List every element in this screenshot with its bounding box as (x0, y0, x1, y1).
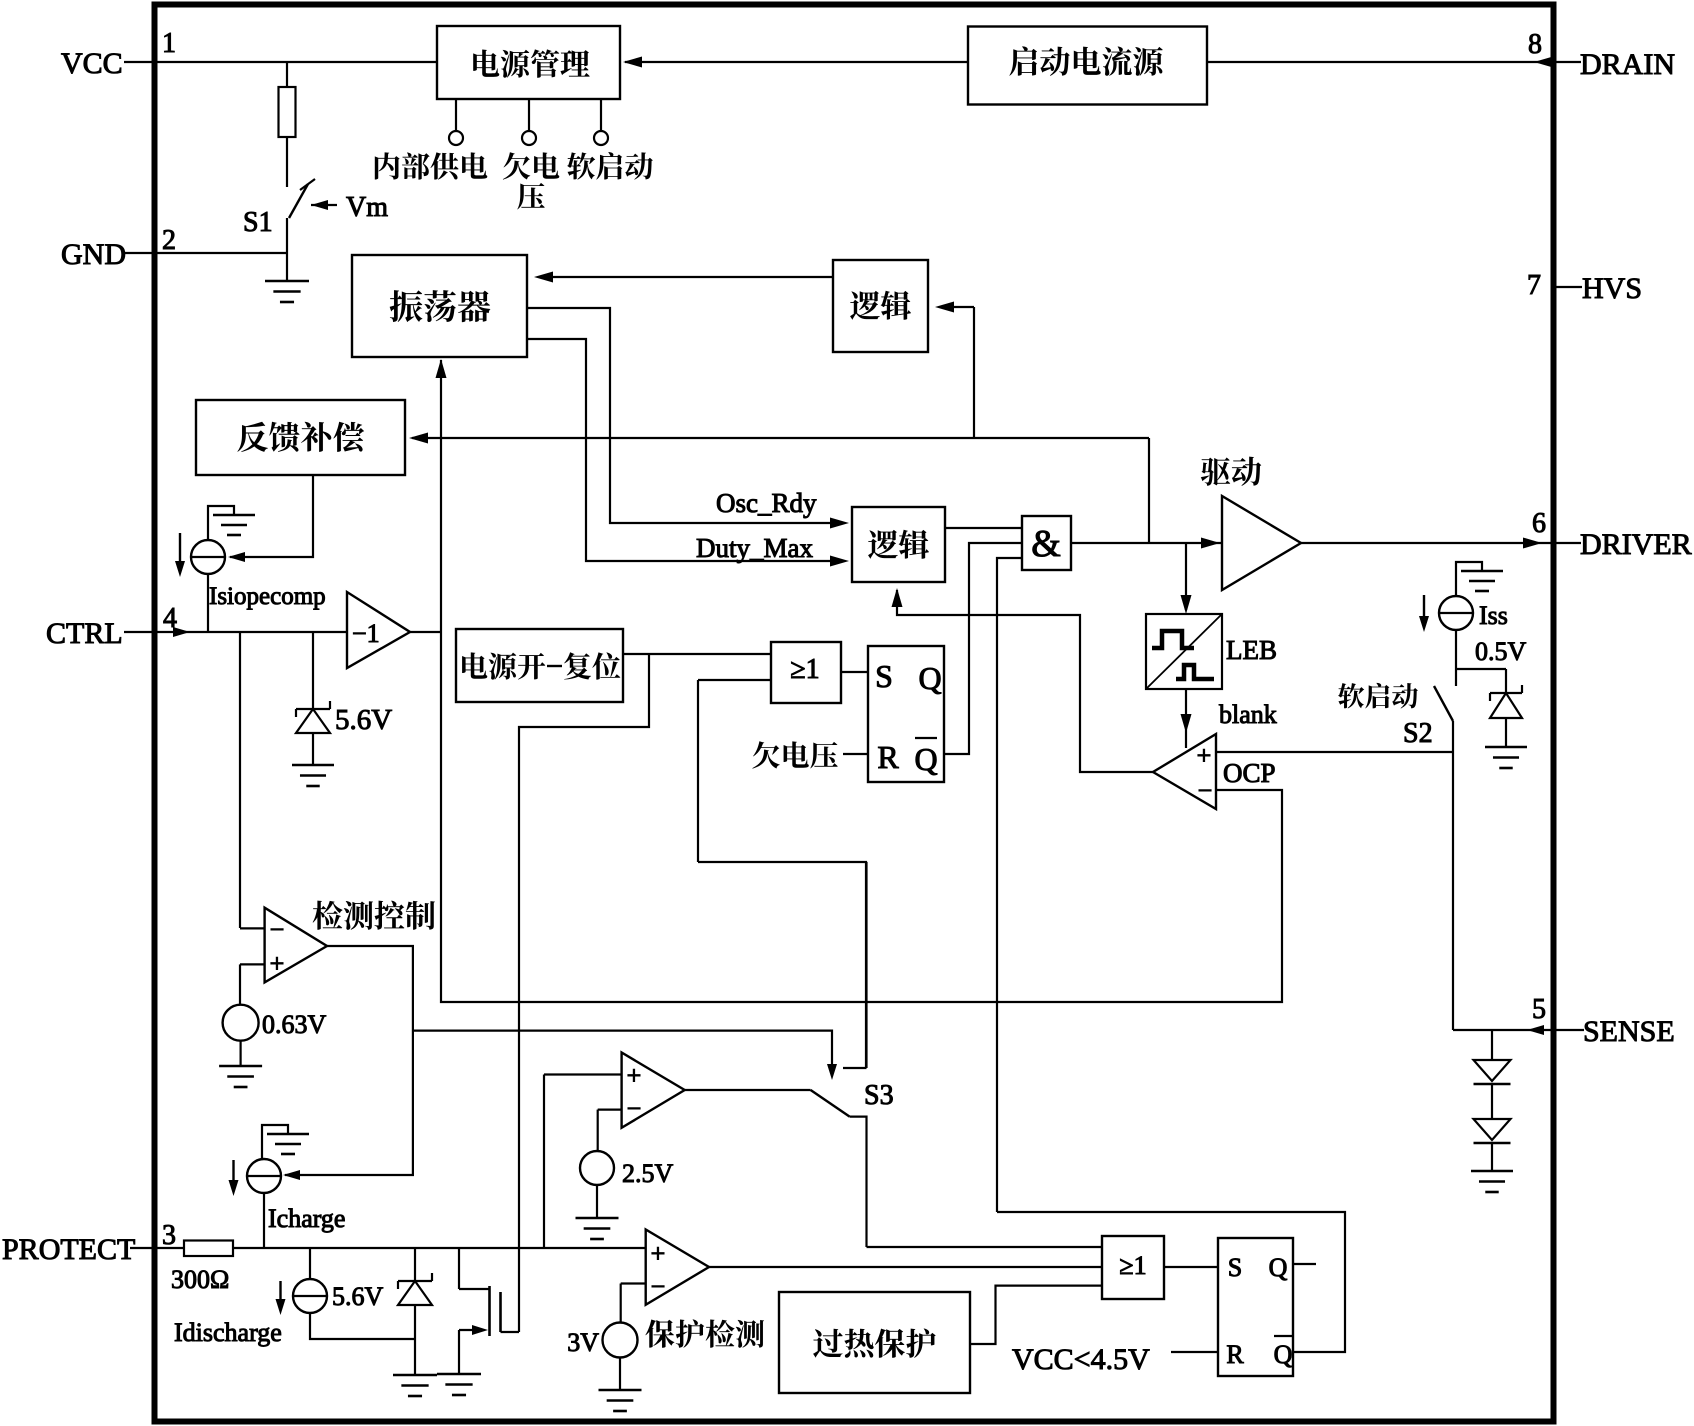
svg-text:DRAIN: DRAIN (1580, 48, 1675, 81)
svg-text:+: + (627, 1061, 642, 1090)
svg-text:PROTECT: PROTECT (2, 1233, 135, 1266)
svg-text:+: + (651, 1239, 666, 1268)
svg-text:2.5V: 2.5V (622, 1159, 674, 1188)
svg-text:6: 6 (1532, 508, 1546, 539)
svg-text:3: 3 (162, 1220, 176, 1251)
svg-text:≥1: ≥1 (1119, 1251, 1146, 1280)
svg-text:8: 8 (1528, 29, 1542, 60)
svg-text:−: − (270, 915, 285, 944)
svg-text:S: S (1228, 1253, 1242, 1282)
svg-text:VCC: VCC (61, 47, 123, 80)
svg-text:GND: GND (61, 238, 126, 271)
svg-text:3V: 3V (567, 1328, 599, 1357)
svg-text:4: 4 (163, 603, 177, 634)
svg-text:Duty_Max: Duty_Max (696, 533, 813, 563)
svg-text:&: & (1031, 523, 1061, 565)
svg-text:S1: S1 (243, 207, 273, 238)
svg-text:Vm: Vm (346, 192, 388, 223)
svg-text:−: − (651, 1272, 666, 1301)
svg-text:S: S (875, 658, 893, 694)
svg-text:Q: Q (918, 660, 941, 696)
svg-text:Q: Q (1269, 1253, 1288, 1282)
svg-text:S2: S2 (1403, 718, 1433, 749)
svg-text:2: 2 (162, 225, 176, 256)
svg-text:OCP: OCP (1223, 758, 1276, 788)
svg-text:≥1: ≥1 (790, 654, 819, 685)
svg-text:Q: Q (914, 741, 937, 777)
svg-text:0.63V: 0.63V (262, 1010, 327, 1039)
svg-text:5.6V: 5.6V (332, 1282, 384, 1311)
svg-text:−: − (1198, 776, 1213, 805)
svg-text:SENSE: SENSE (1583, 1015, 1675, 1048)
svg-text:Isiopecomp: Isiopecomp (209, 583, 326, 610)
svg-text:+: + (270, 949, 285, 978)
svg-text:blank: blank (1219, 700, 1277, 729)
svg-text:DRIVER: DRIVER (1580, 528, 1692, 561)
svg-text:0.5V: 0.5V (1475, 637, 1527, 666)
svg-text:CTRL: CTRL (46, 617, 123, 650)
svg-text:Idischarge: Idischarge (174, 1318, 282, 1347)
svg-text:LEB: LEB (1226, 635, 1277, 665)
svg-text:HVS: HVS (1582, 272, 1642, 305)
svg-text:Icharge: Icharge (268, 1204, 345, 1233)
svg-text:Q: Q (1274, 1340, 1293, 1369)
svg-text:−1: −1 (352, 619, 380, 648)
svg-text:S3: S3 (864, 1080, 894, 1111)
svg-text:−: − (627, 1094, 642, 1123)
svg-text:+: + (1197, 741, 1212, 770)
svg-text:Osc_Rdy: Osc_Rdy (716, 488, 817, 518)
svg-text:7: 7 (1527, 270, 1541, 301)
svg-text:R: R (877, 739, 899, 775)
svg-text:Iss: Iss (1479, 601, 1508, 630)
svg-text:5: 5 (1532, 994, 1546, 1025)
svg-text:5.6V: 5.6V (335, 704, 392, 736)
svg-text:VCC<4.5V: VCC<4.5V (1012, 1343, 1150, 1376)
svg-text:300Ω: 300Ω (171, 1265, 229, 1294)
svg-text:R: R (1226, 1340, 1244, 1369)
svg-text:1: 1 (162, 28, 176, 59)
